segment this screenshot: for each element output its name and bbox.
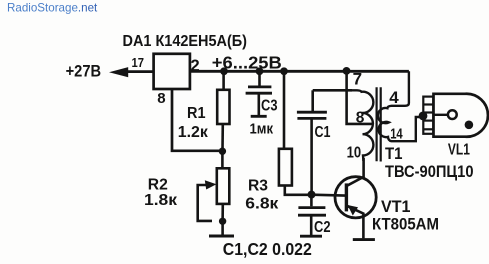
svg-text:10: 10 bbox=[347, 145, 362, 162]
VT1 collector bbox=[347, 158, 364, 186]
svg-text:14: 14 bbox=[390, 127, 403, 143]
wire base node to VT1 base bbox=[312, 193, 346, 197]
VT1 base bar bbox=[345, 183, 348, 211]
svg-text:С1,С2 0.022: С1,С2 0.022 bbox=[223, 239, 312, 259]
R2 wiper arrow bbox=[205, 180, 217, 189]
voltage regulator DA1 box bbox=[154, 54, 190, 89]
wire junction to R2 bbox=[221, 151, 224, 168]
svg-text:С1: С1 bbox=[315, 124, 331, 141]
svg-text:6.8к: 6.8к bbox=[245, 196, 279, 213]
VT1 emitter bbox=[347, 206, 364, 239]
junction dot rail R3 bbox=[280, 67, 288, 75]
svg-text:4: 4 bbox=[389, 88, 399, 107]
transformer T1 primary winding bbox=[352, 90, 373, 161]
svg-text:R2: R2 bbox=[148, 177, 168, 194]
lamp VL1 envelope bbox=[434, 94, 488, 137]
junction node R1/R2/pin8 bbox=[219, 148, 226, 155]
capacitor C2 top stub bbox=[310, 196, 313, 206]
svg-text:С2: С2 bbox=[314, 219, 331, 236]
C1 plate bottom bbox=[297, 117, 326, 120]
resistor R2 (variable) bbox=[217, 168, 230, 204]
svg-text:КТ805АМ: КТ805АМ bbox=[372, 214, 439, 233]
C2 terminal bar bbox=[300, 235, 322, 238]
junction dot base node bbox=[308, 191, 316, 199]
C1 plate top bbox=[297, 111, 327, 114]
wire DA1 pin 8 down and right bbox=[172, 89, 220, 151]
svg-text:Т1: Т1 bbox=[385, 145, 403, 163]
VT1 emitter arrow bbox=[348, 205, 359, 216]
C3 plate top bbox=[248, 86, 271, 89]
wire top rail from DA1 pin2 to right bbox=[190, 70, 409, 73]
capacitor C3 top lead bbox=[258, 71, 261, 85]
svg-text:VT1: VT1 bbox=[381, 197, 411, 216]
svg-text:17: 17 bbox=[132, 55, 145, 70]
C3 bottom lead bbox=[257, 93, 260, 115]
wire R2 bottom lead bbox=[221, 204, 224, 221]
transistor VT1 circle bbox=[335, 177, 376, 218]
svg-text:ТВС-90ПЦ10: ТВС-90ПЦ10 bbox=[385, 162, 474, 181]
C2 bottom lead bbox=[310, 215, 313, 235]
svg-text:VL1: VL1 bbox=[448, 142, 470, 159]
terminal bar bottom left bbox=[209, 235, 234, 238]
VL1 electrode line bbox=[434, 114, 448, 116]
C3 plate bottom bbox=[246, 92, 272, 95]
wire rail to T1 tap pin 8 bbox=[347, 71, 374, 124]
svg-text:RadioStorage.net: RadioStorage.net bbox=[7, 2, 98, 15]
VT1 emitter terminal bar bbox=[353, 238, 375, 241]
transformer T1 core bbox=[376, 87, 378, 161]
VL1 electrode circle bbox=[448, 110, 457, 119]
wire R1 bottom lead bbox=[221, 124, 224, 150]
junction dot rail C3 bbox=[256, 67, 264, 75]
junction dot rail R1 bbox=[220, 67, 228, 75]
C2 plate bottom bbox=[298, 214, 326, 217]
wire R3 top lead bbox=[283, 71, 286, 149]
VL1 cathode dot bbox=[465, 121, 474, 130]
svg-text:С3: С3 bbox=[261, 98, 278, 115]
R2 wiper wire down to bottom node bbox=[198, 185, 212, 221]
arrowhead of +27V input bbox=[109, 67, 128, 77]
svg-text:1.2к: 1.2к bbox=[178, 124, 209, 141]
svg-text:R3: R3 bbox=[248, 178, 268, 195]
wire arrow to DA1 pin 17 bbox=[126, 70, 154, 73]
svg-text:1.8к: 1.8к bbox=[144, 192, 178, 209]
resistor R1 bbox=[217, 90, 229, 124]
junction dot R2 bottom bbox=[219, 218, 226, 225]
capacitor C1 top stub bbox=[311, 90, 314, 111]
svg-text:8: 8 bbox=[356, 109, 365, 126]
wire C1 branch from pin7 line bbox=[313, 89, 352, 92]
svg-text:+27В: +27В bbox=[66, 62, 102, 81]
svg-text:7: 7 bbox=[353, 70, 362, 89]
wire R1 top lead bbox=[222, 71, 225, 90]
svg-text:8: 8 bbox=[157, 90, 165, 107]
transformer T1 secondary winding bbox=[378, 71, 421, 141]
svg-text:1мк: 1мк bbox=[250, 121, 274, 137]
svg-text:DA1 К142ЕН5А(Б): DA1 К142ЕН5А(Б) bbox=[123, 33, 248, 50]
C3 terminal bar bbox=[251, 115, 267, 118]
svg-text:R1: R1 bbox=[187, 105, 206, 122]
wire R3 bottom lead to node bbox=[285, 186, 308, 195]
wire stub to bottom terminal bbox=[221, 221, 224, 235]
VL1 socket ladder bbox=[423, 97, 433, 134]
junction dot rail T1 bbox=[343, 67, 351, 75]
C2 plate top bbox=[298, 206, 325, 209]
wire C1 bottom lead to base node bbox=[310, 118, 313, 192]
resistor R3 bbox=[279, 149, 292, 186]
junction dot VL1 connector bbox=[419, 112, 428, 121]
